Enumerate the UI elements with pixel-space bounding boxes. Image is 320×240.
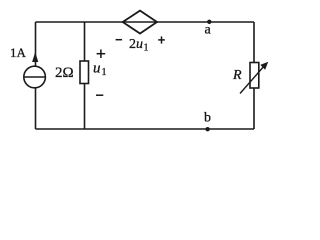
svg-text:1: 1 [102,67,107,78]
svg-text:u: u [136,37,143,52]
svg-text:a: a [205,23,212,38]
svg-text:R: R [232,68,242,83]
svg-text:2Ω: 2Ω [55,65,74,81]
svg-text:1: 1 [144,43,149,54]
svg-text:b: b [204,111,211,126]
svg-text:1A: 1A [10,45,27,60]
svg-text:u: u [93,61,101,77]
svg-text:2: 2 [129,37,136,52]
